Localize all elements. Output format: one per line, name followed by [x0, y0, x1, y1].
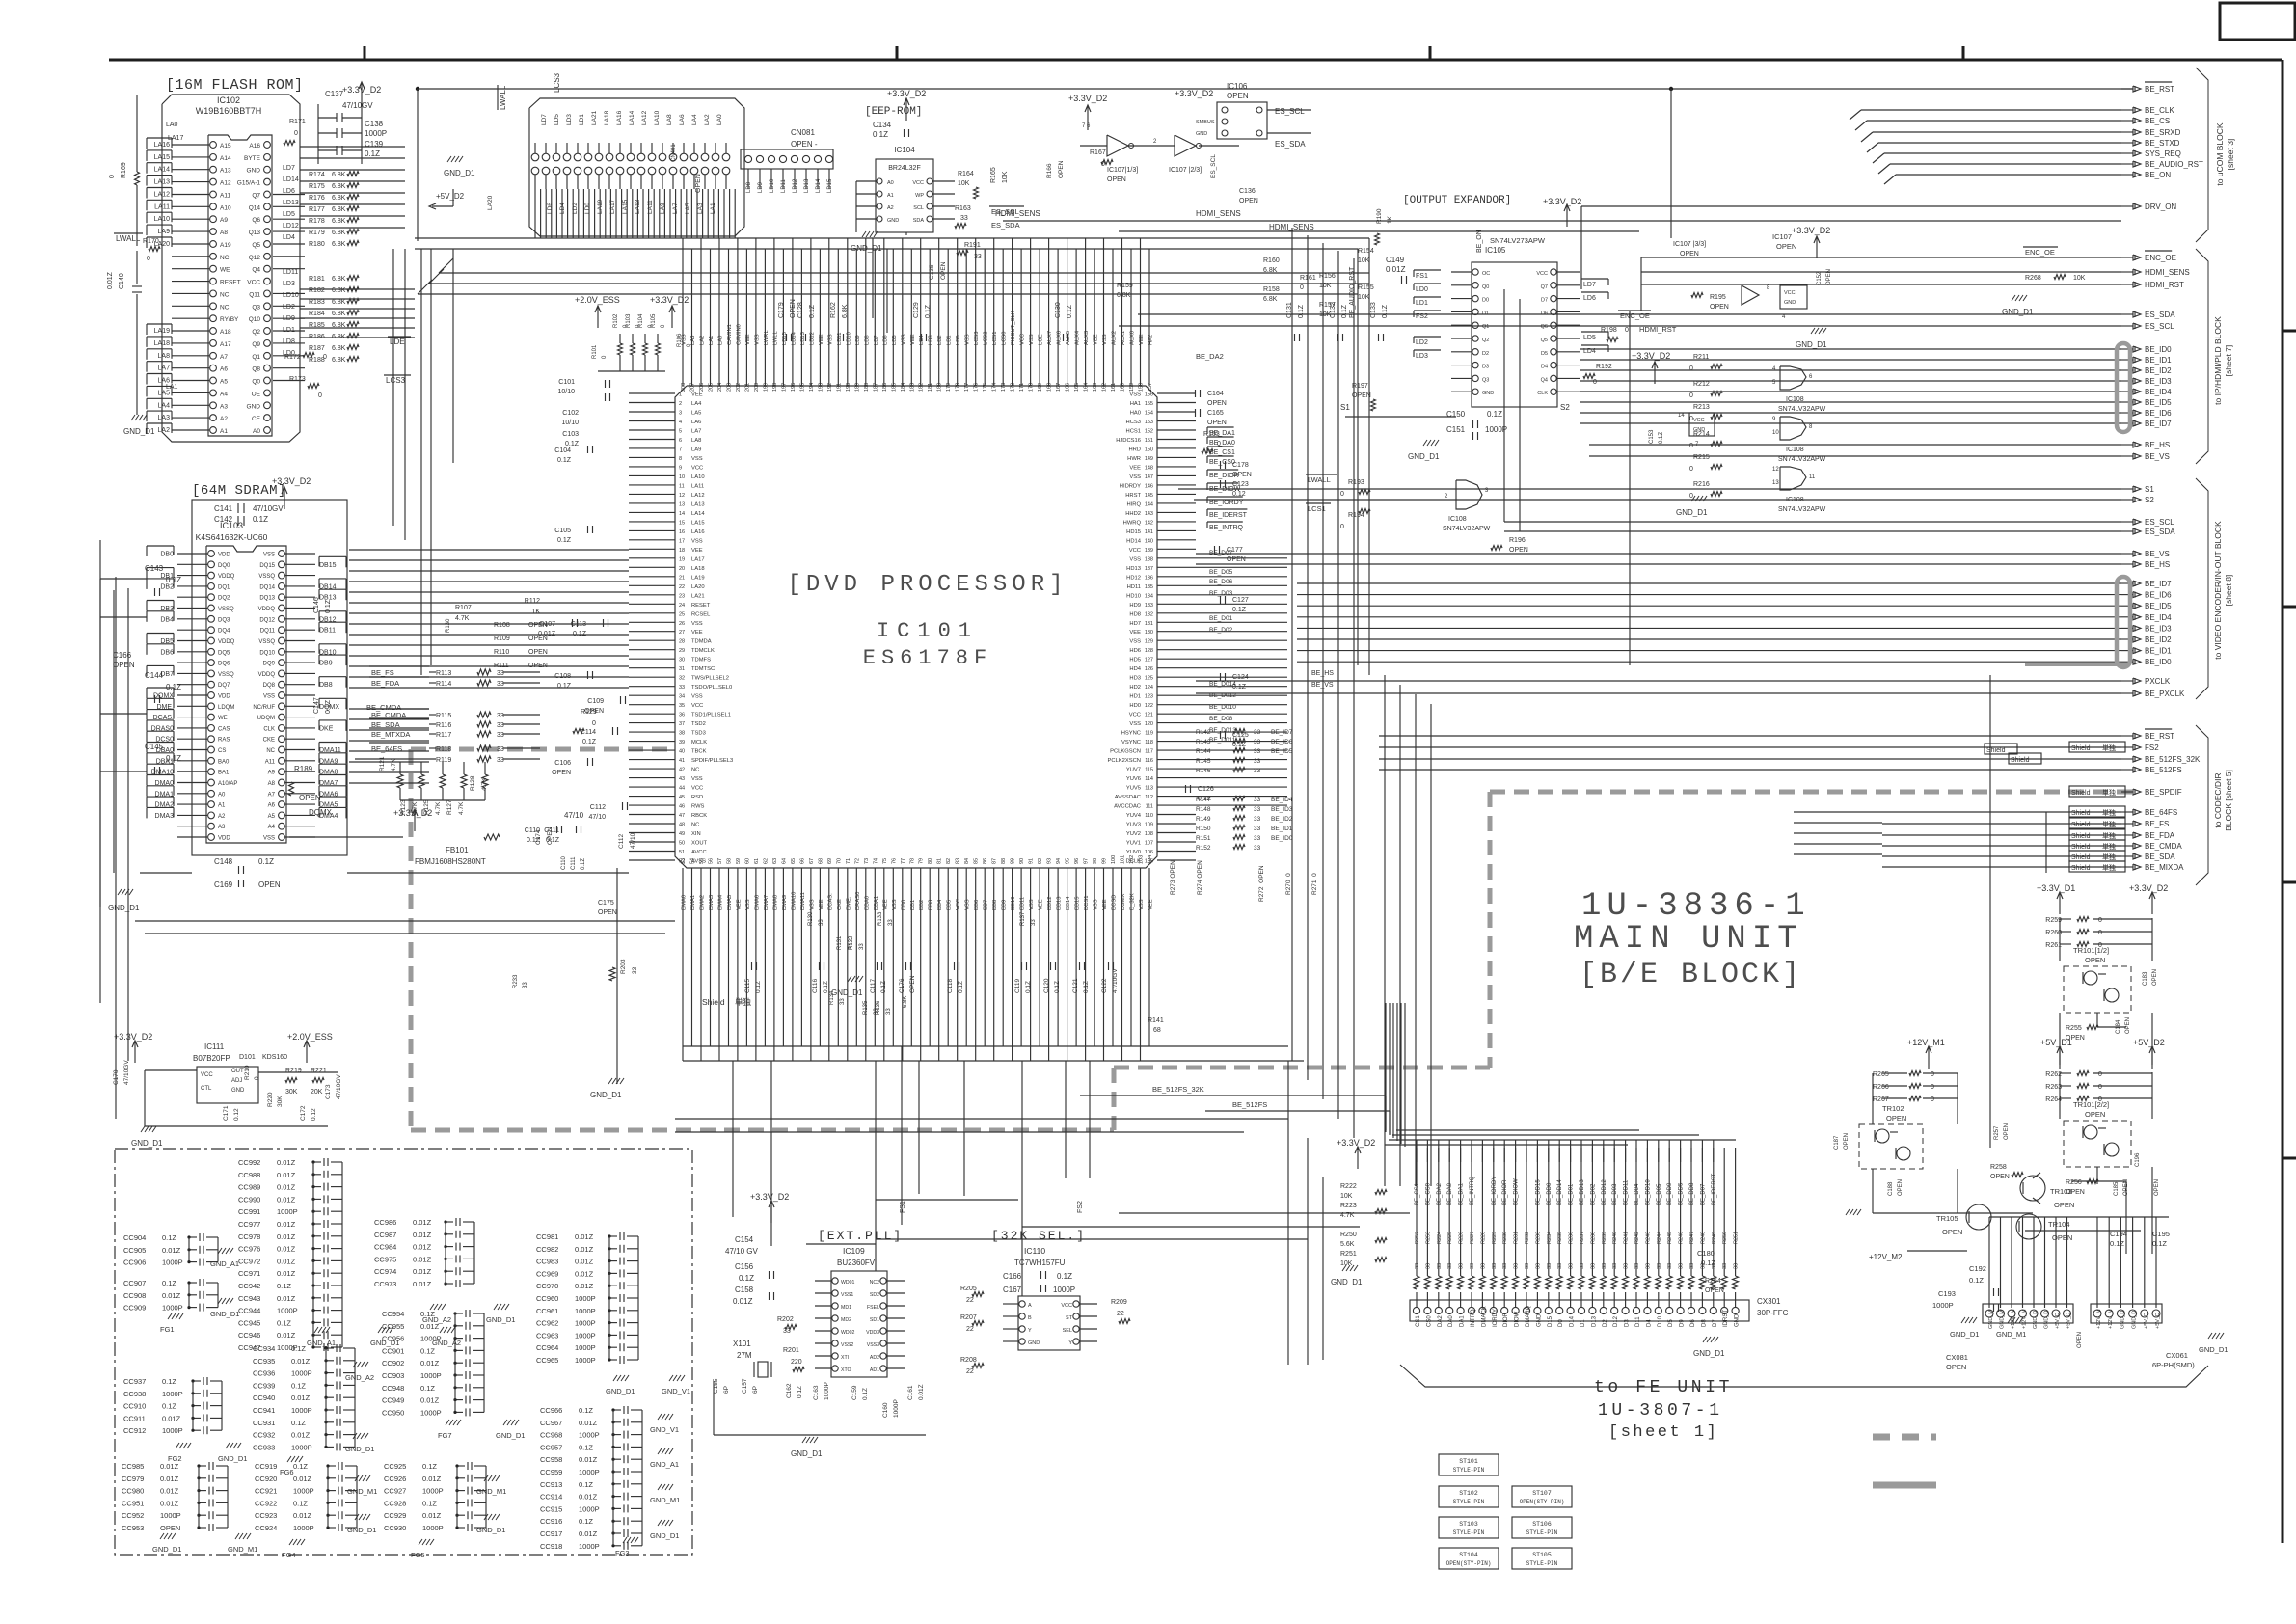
- svg-text:A0: A0: [253, 428, 260, 435]
- svg-text:123: 123: [1145, 694, 1153, 700]
- svg-text:LA3: LA3: [690, 336, 696, 345]
- svg-text:+5V_D: +5V_D: [2055, 1313, 2061, 1329]
- svg-text:D1: D1: [1580, 1319, 1586, 1327]
- svg-text:STYLE-PIN: STYLE-PIN: [1526, 1560, 1558, 1567]
- svg-text:1000P: 1000P: [291, 1369, 312, 1378]
- svg-text:6.8K: 6.8K: [332, 218, 346, 225]
- svg-text:D0: D0: [1482, 298, 1489, 304]
- svg-text:ES_SDA: ES_SDA: [991, 221, 1020, 230]
- svg-text:CC986: CC986: [374, 1218, 396, 1227]
- svg-text:CC960: CC960: [536, 1294, 558, 1303]
- svg-text:0.1Z: 0.1Z: [579, 1443, 593, 1451]
- svg-text:84: 84: [964, 858, 970, 864]
- svg-text:BE_D01: BE_D01: [1569, 1183, 1575, 1205]
- svg-text:FG7: FG7: [438, 1431, 452, 1440]
- svg-text:R148: R148: [1196, 806, 1211, 813]
- svg-text:44: 44: [679, 786, 685, 792]
- svg-text:LWALL: LWALL: [116, 234, 141, 243]
- svg-text:135: 135: [1145, 584, 1153, 590]
- svg-text:R170: R170: [143, 238, 159, 245]
- svg-text:BE_CS1: BE_CS1: [1209, 449, 1235, 456]
- svg-text:131: 131: [1145, 621, 1153, 627]
- svg-text:IC108: IC108: [1786, 497, 1804, 503]
- svg-text:GND: GND: [1536, 1313, 1542, 1327]
- svg-text:30K: 30K: [277, 1096, 284, 1107]
- svg-text:FBMJ1608HS280NT: FBMJ1608HS280NT: [415, 857, 486, 866]
- svg-text:LA2: LA2: [700, 336, 706, 345]
- svg-text:R157: R157: [1319, 302, 1336, 309]
- svg-text:33: 33: [1547, 1263, 1553, 1269]
- svg-text:VDD3: VDD3: [866, 1330, 879, 1336]
- svg-text:BE_DA1: BE_DA1: [1459, 1182, 1465, 1205]
- svg-text:0.01Z: 0.01Z: [422, 1475, 442, 1483]
- svg-text:7: 7: [679, 447, 682, 452]
- svg-text:1000P: 1000P: [579, 1542, 600, 1551]
- svg-text:0.1Z: 0.1Z: [166, 683, 181, 691]
- svg-text:0.01Z: 0.01Z: [420, 1359, 440, 1367]
- svg-text:R150: R150: [1196, 826, 1211, 832]
- svg-text:13: 13: [679, 501, 685, 507]
- svg-text:IC107|1/3]: IC107|1/3]: [1107, 167, 1138, 174]
- svg-text:C159: C159: [851, 1385, 858, 1400]
- svg-text:MCLK: MCLK: [691, 740, 707, 745]
- svg-text:0.1Z: 0.1Z: [797, 1386, 803, 1398]
- svg-text:LA1: LA1: [709, 336, 715, 345]
- svg-text:0.01Z: 0.01Z: [413, 1255, 432, 1263]
- svg-text:LD14: LD14: [791, 331, 797, 345]
- svg-text:VCC: VCC: [1061, 1303, 1072, 1309]
- svg-text:0: 0: [254, 1076, 260, 1080]
- svg-text:C180: C180: [1697, 1249, 1715, 1258]
- svg-text:CC981: CC981: [536, 1232, 558, 1241]
- svg-text:DQ14: DQ14: [259, 584, 275, 590]
- svg-text:179: 179: [946, 383, 952, 392]
- svg-text:HDMI_RST: HDMI_RST: [1639, 325, 1677, 334]
- svg-text:BE_ID2: BE_ID2: [2145, 636, 2172, 644]
- svg-text:0.1Z: 0.1Z: [420, 1310, 435, 1318]
- svg-text:DB6: DB6: [160, 649, 174, 656]
- svg-text:CX081: CX081: [1946, 1353, 1968, 1362]
- svg-text:Q9: Q9: [252, 341, 260, 348]
- svg-text:C109: C109: [587, 698, 604, 705]
- svg-text:DKE: DKE: [319, 725, 334, 732]
- svg-text:CS0: CS0: [1426, 1315, 1432, 1327]
- svg-text:CC909: CC909: [123, 1304, 146, 1313]
- svg-text:CC956: CC956: [382, 1335, 404, 1343]
- svg-text:0: 0: [2098, 1071, 2102, 1078]
- svg-text:0: 0: [592, 720, 596, 727]
- svg-text:C103: C103: [562, 431, 579, 438]
- svg-text:1000P: 1000P: [160, 1511, 181, 1520]
- svg-text:LA16: LA16: [154, 142, 170, 149]
- svg-text:C151: C151: [1446, 425, 1466, 434]
- svg-text:HDMI_SENS: HDMI_SENS: [1269, 223, 1314, 231]
- svg-text:17: 17: [679, 538, 685, 544]
- svg-text:33: 33: [497, 757, 504, 764]
- svg-text:A4: A4: [220, 391, 228, 397]
- svg-text:LA11: LA11: [647, 200, 654, 214]
- svg-text:BE_512FS: BE_512FS: [2145, 766, 2182, 774]
- svg-text:DQ5: DQ5: [218, 650, 230, 656]
- svg-text:LD4: LD4: [283, 234, 295, 241]
- svg-text:4.7K: 4.7K: [435, 801, 442, 815]
- svg-text:VSS: VSS: [754, 334, 760, 345]
- svg-text:R107: R107: [455, 605, 472, 611]
- svg-text:GND_D1: GND_D1: [791, 1449, 823, 1458]
- svg-text:VCC: VCC: [912, 180, 924, 186]
- svg-text:87: 87: [992, 858, 998, 864]
- svg-text:190: 190: [846, 383, 851, 392]
- svg-text:LWALL: LWALL: [1308, 475, 1331, 484]
- svg-text:HD5: HD5: [1129, 658, 1141, 663]
- svg-text:R186: R186: [309, 334, 325, 340]
- svg-text:VSS: VSS: [263, 694, 275, 700]
- svg-text:0.12: 0.12: [311, 1108, 317, 1121]
- svg-text:VEE: VEE: [819, 899, 824, 910]
- svg-text:33: 33: [1502, 1263, 1508, 1269]
- svg-text:FS2: FS2: [2145, 744, 2159, 752]
- svg-text:47/10GV: 47/10GV: [123, 1060, 130, 1085]
- svg-text:33: 33: [497, 746, 504, 753]
- svg-text:to CODEC/DIR: to CODEC/DIR: [2213, 772, 2223, 827]
- svg-text:A10: A10: [220, 204, 231, 211]
- svg-text:0.01Z: 0.01Z: [277, 1232, 296, 1241]
- svg-text:WP: WP: [915, 193, 924, 199]
- svg-text:33: 33: [1254, 816, 1261, 823]
- svg-text:LA15: LA15: [154, 154, 170, 161]
- svg-text:A2: A2: [887, 205, 894, 211]
- svg-text:CC913: CC913: [540, 1480, 562, 1489]
- svg-text:170: 170: [1029, 383, 1035, 392]
- svg-text:VSS: VSS: [965, 899, 971, 910]
- svg-text:BE_ID5: BE_ID5: [1271, 748, 1293, 755]
- svg-text:VSS: VSS: [1102, 334, 1108, 345]
- svg-text:33: 33: [1459, 1263, 1465, 1269]
- svg-text:33: 33: [888, 919, 894, 926]
- svg-text:A10/AP: A10/AP: [218, 781, 237, 787]
- svg-text:R253: R253: [1425, 1232, 1431, 1244]
- svg-text:LD1: LD1: [579, 114, 585, 125]
- svg-text:C144: C144: [145, 671, 164, 680]
- svg-text:OPEN: OPEN: [528, 663, 548, 669]
- svg-text:66: 66: [799, 858, 805, 864]
- svg-text:+3.3V_D2: +3.3V_D2: [114, 1032, 152, 1042]
- svg-text:OPEN: OPEN: [1107, 176, 1126, 183]
- svg-text:CC969: CC969: [536, 1269, 558, 1278]
- svg-text:DB15: DB15: [1075, 896, 1081, 910]
- svg-text:130: 130: [1145, 630, 1153, 636]
- svg-text:R244: R244: [1657, 1232, 1662, 1244]
- svg-text:121: 121: [1145, 713, 1153, 718]
- svg-text:DMA4: DMA4: [718, 894, 724, 910]
- svg-text:D1: D1: [1482, 311, 1489, 316]
- svg-text:161: 161: [1111, 383, 1117, 392]
- svg-text:CC984: CC984: [374, 1243, 396, 1252]
- svg-text:C147: C147: [313, 697, 320, 714]
- svg-text:118: 118: [1145, 740, 1153, 745]
- svg-text:2: 2: [1445, 494, 1448, 500]
- svg-text:RAS: RAS: [218, 738, 230, 744]
- svg-text:GND_D1: GND_D1: [2002, 308, 2034, 316]
- svg-text:Q4: Q4: [252, 267, 260, 274]
- svg-text:R175: R175: [309, 183, 325, 190]
- svg-text:BE_ID1: BE_ID1: [2145, 647, 2172, 656]
- svg-text:0.01Z: 0.01Z: [413, 1218, 432, 1227]
- svg-text:VSS: VSS: [1129, 474, 1141, 480]
- svg-text:CAMIN1: CAMIN1: [727, 324, 733, 345]
- svg-text:Y: Y: [1028, 1328, 1032, 1334]
- svg-text:YUV0: YUV0: [1126, 850, 1141, 855]
- svg-text:LA18: LA18: [154, 340, 170, 347]
- svg-text:DMACK: DMACK: [1481, 1306, 1487, 1327]
- svg-text:HD11: HD11: [1127, 584, 1141, 590]
- svg-text:R149: R149: [1196, 816, 1211, 823]
- svg-text:単独: 単独: [2102, 853, 2116, 861]
- svg-text:R112: R112: [525, 598, 540, 605]
- svg-text:DMARQ: DMARQ: [1526, 1305, 1531, 1327]
- svg-text:PCLKGSCN: PCLKGSCN: [1110, 749, 1141, 755]
- svg-text:82: 82: [946, 858, 952, 864]
- svg-text:1000P: 1000P: [277, 1307, 298, 1315]
- svg-text:AUX5: AUX5: [1066, 331, 1071, 345]
- svg-text:DQ2: DQ2: [218, 596, 230, 602]
- svg-text:R130: R130: [446, 618, 451, 633]
- svg-text:125: 125: [1145, 676, 1153, 682]
- svg-text:DQ8: DQ8: [263, 683, 276, 689]
- svg-text:63: 63: [772, 858, 778, 864]
- svg-text:Q8: Q8: [252, 366, 260, 373]
- svg-text:LA11: LA11: [154, 203, 170, 210]
- svg-text:DB15: DB15: [319, 562, 337, 569]
- svg-text:0.1Z: 0.1Z: [422, 1499, 437, 1507]
- svg-text:188: 188: [864, 383, 870, 392]
- svg-text:VSS: VSS: [263, 553, 275, 558]
- svg-text:DA2: DA2: [1438, 1315, 1444, 1327]
- svg-text:to IP/HDMI/PLD BLOCK: to IP/HDMI/PLD BLOCK: [2213, 316, 2223, 405]
- svg-text:IC108: IC108: [1786, 396, 1804, 403]
- svg-text:6.8K: 6.8K: [332, 206, 346, 213]
- svg-text:LDE: LDE: [390, 338, 405, 346]
- svg-text:AVCC: AVCC: [691, 850, 707, 855]
- svg-text:33: 33: [1535, 1263, 1541, 1269]
- svg-text:R145: R145: [1196, 758, 1211, 765]
- svg-text:CTL: CTL: [201, 1086, 212, 1092]
- svg-text:CC944: CC944: [238, 1307, 260, 1315]
- svg-text:R108: R108: [494, 622, 510, 629]
- svg-text:IC108: IC108: [1448, 516, 1467, 523]
- svg-text:R245: R245: [1667, 1232, 1673, 1244]
- svg-text:R104: R104: [638, 313, 644, 328]
- svg-text:6: 6: [679, 438, 682, 444]
- svg-text:0.01Z: 0.01Z: [575, 1282, 594, 1290]
- svg-text:C166: C166: [1003, 1272, 1022, 1281]
- svg-text:+5V_D2: +5V_D2: [436, 192, 465, 201]
- svg-text:ST: ST: [1066, 1315, 1073, 1321]
- svg-text:70: 70: [836, 858, 842, 864]
- svg-text:VCC: VCC: [691, 703, 703, 709]
- svg-text:SN74LV273APW: SN74LV273APW: [1490, 236, 1546, 245]
- svg-text:142: 142: [1145, 520, 1153, 526]
- svg-text:DB7: DB7: [984, 900, 989, 910]
- svg-text:C105: C105: [554, 528, 571, 534]
- svg-text:R198: R198: [1601, 327, 1617, 334]
- svg-text:GND: GND: [247, 168, 261, 175]
- svg-text:33: 33: [1254, 748, 1261, 755]
- svg-text:OPEN: OPEN: [909, 975, 916, 993]
- svg-text:CC921: CC921: [255, 1487, 277, 1496]
- svg-text:181: 181: [928, 383, 933, 392]
- svg-text:CC905: CC905: [123, 1246, 146, 1255]
- svg-text:LD7: LD7: [874, 335, 879, 345]
- svg-text:152: 152: [1145, 429, 1153, 435]
- svg-text:BE_CS1: BE_CS1: [1415, 1182, 1420, 1205]
- svg-text:VSS: VSS: [691, 456, 703, 462]
- svg-text:R267: R267: [1873, 1096, 1889, 1103]
- svg-text:RWS: RWS: [691, 804, 705, 810]
- svg-text:33: 33: [1415, 1263, 1420, 1269]
- svg-text:YUV3: YUV3: [1126, 823, 1141, 828]
- svg-text:1000P: 1000P: [575, 1356, 596, 1365]
- svg-text:BE_D013: BE_D013: [1209, 727, 1236, 734]
- svg-text:0.1Z: 0.1Z: [293, 1462, 308, 1471]
- svg-text:OPEN: OPEN: [1946, 1363, 1966, 1371]
- svg-text:DB2: DB2: [160, 583, 174, 590]
- svg-text:0.1Z: 0.1Z: [1341, 304, 1348, 318]
- svg-text:R106: R106: [677, 333, 683, 347]
- svg-text:R243: R243: [1645, 1232, 1651, 1244]
- svg-text:LD5: LD5: [554, 114, 560, 125]
- svg-text:C179: C179: [778, 302, 785, 318]
- svg-text:HRD: HRD: [1128, 447, 1141, 452]
- svg-text:DB5: DB5: [947, 900, 953, 910]
- svg-text:0.1Z: 0.1Z: [579, 1517, 593, 1526]
- svg-text:A16: A16: [249, 143, 260, 149]
- svg-text:0.01Z: 0.01Z: [293, 1511, 312, 1520]
- svg-text:A1: A1: [220, 428, 228, 435]
- svg-text:21: 21: [679, 575, 685, 581]
- svg-text:BE_ID1: BE_ID1: [1271, 826, 1293, 832]
- svg-text:Shield: Shield: [2071, 822, 2091, 828]
- svg-text:+5V_D: +5V_D: [2066, 1313, 2072, 1329]
- svg-text:1000P: 1000P: [575, 1319, 596, 1328]
- svg-text:D15: D15: [1548, 1315, 1553, 1327]
- svg-text:GND_D1: GND_D1: [1676, 508, 1708, 517]
- svg-text:R131: R131: [837, 935, 843, 950]
- svg-text:ST104: ST104: [1459, 1552, 1478, 1558]
- svg-text:HD1: HD1: [1129, 694, 1141, 700]
- svg-text:33: 33: [1425, 1263, 1431, 1269]
- svg-text:LD4: LD4: [1583, 348, 1596, 355]
- svg-text:33: 33: [1602, 1263, 1607, 1269]
- svg-text:CC941: CC941: [253, 1406, 275, 1415]
- svg-text:CC975: CC975: [374, 1255, 396, 1263]
- svg-text:C170: C170: [113, 1069, 120, 1085]
- svg-text:Shield: Shield: [1986, 747, 2006, 754]
- svg-text:SN74LV32APW: SN74LV32APW: [1778, 456, 1826, 463]
- svg-text:6.8K: 6.8K: [332, 299, 346, 306]
- svg-text:BA1: BA1: [218, 771, 230, 776]
- svg-text:単独: 単独: [2102, 831, 2116, 840]
- svg-text:GND_D1: GND_D1: [590, 1091, 622, 1099]
- svg-text:A11: A11: [265, 759, 276, 765]
- svg-text:0.01Z: 0.01Z: [277, 1183, 296, 1192]
- svg-text:1000P: 1000P: [420, 1408, 442, 1417]
- svg-text:33: 33: [1492, 1263, 1498, 1269]
- svg-text:1000P: 1000P: [1053, 1286, 1075, 1294]
- svg-text:FG5: FG5: [411, 1551, 425, 1559]
- svg-text:OPEN: OPEN: [528, 636, 548, 642]
- svg-text:C172: C172: [300, 1105, 307, 1121]
- svg-text:G15/A-1: G15/A-1: [237, 180, 261, 187]
- svg-text:0.1Z: 0.1Z: [1057, 1272, 1072, 1281]
- svg-text:BE_FS: BE_FS: [371, 668, 394, 677]
- svg-text:0.1Z: 0.1Z: [365, 149, 380, 158]
- svg-text:0.01Z: 0.01Z: [575, 1258, 594, 1266]
- svg-text:0.1Z: 0.1Z: [2110, 1239, 2124, 1248]
- svg-text:NC: NC: [266, 748, 275, 754]
- svg-text:LD7: LD7: [1583, 282, 1596, 288]
- svg-text:LD2: LD2: [283, 304, 295, 311]
- svg-text:CC948: CC948: [382, 1384, 404, 1393]
- svg-text:153: 153: [1145, 420, 1153, 425]
- svg-text:LD8: LD8: [746, 181, 752, 193]
- svg-text:113: 113: [1145, 786, 1153, 792]
- svg-text:BE_ON: BE_ON: [2145, 171, 2171, 179]
- svg-text:1000P: 1000P: [293, 1487, 314, 1496]
- svg-text:GND_A2: GND_A2: [432, 1339, 461, 1347]
- svg-text:DB3: DB3: [929, 900, 934, 910]
- svg-text:DB12: DB12: [1047, 896, 1053, 910]
- svg-text:LCS3: LCS3: [974, 331, 980, 345]
- svg-text:103: 103: [1139, 855, 1145, 864]
- svg-text:CC903: CC903: [382, 1371, 404, 1380]
- svg-text:OPEN: OPEN: [528, 622, 548, 629]
- svg-text:D10: D10: [1658, 1315, 1663, 1327]
- svg-text:A4: A4: [268, 825, 276, 830]
- svg-text:CLK: CLK: [263, 726, 275, 732]
- svg-text:HA0: HA0: [1130, 411, 1141, 417]
- svg-text:C108: C108: [554, 673, 571, 680]
- svg-text:0.1Z: 0.1Z: [277, 1318, 291, 1327]
- svg-text:53: 53: [681, 858, 687, 864]
- svg-text:116: 116: [1145, 758, 1153, 764]
- svg-text:C128: C128: [797, 302, 804, 318]
- svg-text:R192: R192: [1596, 364, 1612, 370]
- svg-text:LA1: LA1: [166, 384, 178, 391]
- svg-text:91: 91: [1029, 858, 1035, 864]
- svg-text:R147: R147: [1196, 797, 1211, 803]
- svg-text:BE_FS: BE_FS: [2145, 820, 2169, 828]
- svg-text:VSS: VSS: [691, 538, 703, 544]
- svg-text:DB2: DB2: [919, 900, 925, 910]
- svg-text:0.1Z: 0.1Z: [422, 1462, 437, 1471]
- svg-text:X101: X101: [733, 1340, 751, 1348]
- svg-text:C136: C136: [1239, 188, 1256, 195]
- svg-text:DGMX: DGMX: [1121, 893, 1126, 910]
- svg-text:to FE UNIT: to FE UNIT: [1594, 1378, 1733, 1397]
- svg-text:0.1Z: 0.1Z: [739, 1274, 754, 1283]
- svg-text:156: 156: [1145, 392, 1153, 398]
- svg-text:CC920: CC920: [255, 1475, 277, 1483]
- svg-text:1000P: 1000P: [1485, 425, 1507, 434]
- svg-text:0.1Z: 0.1Z: [823, 981, 829, 993]
- svg-text:C149: C149: [1386, 256, 1405, 264]
- svg-text:191: 191: [836, 383, 842, 392]
- svg-text:C129: C129: [913, 302, 920, 318]
- svg-text:OPEN: OPEN: [1886, 1114, 1906, 1123]
- svg-text:D_32K: D_32K: [1130, 893, 1136, 910]
- svg-text:LD0: LD0: [584, 203, 591, 214]
